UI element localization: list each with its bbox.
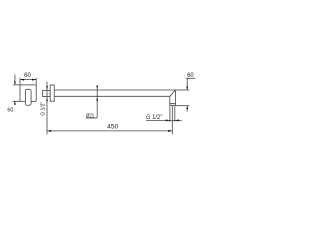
arm tube top line [54,89,175,91]
G 1/2 wall arrow down [46,86,48,89]
arm tube bottom line [54,95,170,97]
outlet axis line [171,107,173,135]
dim 60 left extension ticks [13,85,21,101]
dim 60 top extension lines [20,78,36,85]
svg-text:G 1/2": G 1/2" [40,102,46,116]
dim 450 arrows [47,130,172,132]
flange square front view [20,85,36,101]
svg-text:60: 60 [7,107,13,113]
dim diameter 21 line [96,87,98,118]
outlet slot front view [25,89,31,105]
svg-text:60: 60 [24,73,31,79]
dim 60 left arrow up [14,101,16,104]
svg-text:450: 450 [107,124,119,131]
dim diameter 21 arrow up [96,97,98,100]
dim 60 right extension tick bottom [175,105,189,107]
dim 60 left line lower [14,101,16,105]
dim diameter 21 arrow down [96,86,98,89]
elbow mitre line [170,90,176,96]
outlet left edge [169,96,171,105]
dim 60 right underline [186,77,195,79]
dim 450 line [47,130,172,132]
dim 60 right extension tick top [175,89,189,91]
dim 60 right line lower [186,106,188,112]
dim 60 top line [20,79,36,81]
outlet groove lines [170,104,176,106]
dim G 1/2 bottom line [146,119,182,121]
dim 60 top arrows [20,79,36,81]
flange plate side view [50,85,54,101]
wall line [46,82,48,135]
dim 60 right line upper [186,78,188,90]
outlet right edge [174,90,176,106]
svg-text:Ø21: Ø21 [86,114,94,120]
dim 60 right arrow down [186,87,188,90]
dim diameter 21 underline [86,117,97,119]
dim G 1/2 bottom arrows [166,119,179,121]
G 1/2 wall arrow up [46,98,48,101]
outlet extension lines [170,107,175,122]
svg-text:G 1/2": G 1/2" [146,115,162,121]
dim 60 right arrow up [186,106,188,109]
wall stub pipe side view [43,91,51,97]
dim 60 left line upper [14,74,16,85]
dim 60 left arrow down [14,82,16,85]
